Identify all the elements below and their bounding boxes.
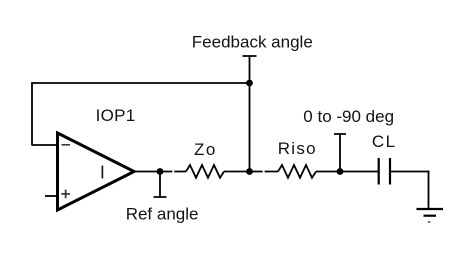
wire output to Zo — [160, 171, 186, 173]
op-amp minus pin label — [62, 144, 71, 146]
wire feedback top horizontal — [32, 82, 250, 84]
resistor Riso — [278, 165, 316, 178]
svg-text:I: I — [100, 162, 105, 182]
wire CL to corner — [390, 171, 429, 173]
svg-text:0 to -90 deg: 0 to -90 deg — [303, 107, 394, 126]
node output dot — [337, 168, 344, 175]
wire corner down — [428, 171, 430, 209]
wire non-inverting input stub — [45, 195, 58, 197]
wire Zo to node — [224, 171, 250, 173]
svg-text:Zo: Zo — [194, 140, 217, 159]
wire op-amp output — [134, 171, 161, 173]
svg-text:IOP1: IOP1 — [96, 106, 136, 125]
wire node to CL — [340, 171, 378, 173]
svg-text:CL: CL — [372, 132, 397, 151]
node feedback bottom dot — [246, 168, 253, 175]
wire Riso to node — [316, 171, 340, 173]
svg-text:Riso: Riso — [278, 139, 317, 158]
op-amp IOP1 — [58, 133, 135, 210]
capacitor CL — [379, 158, 390, 185]
terminal Feedback angle — [243, 56, 257, 83]
ground — [417, 209, 444, 222]
node feedback top dot — [246, 80, 253, 87]
wire feedback vertical — [249, 83, 251, 172]
svg-text:Ref angle: Ref angle — [126, 204, 199, 223]
wire inverting input — [32, 144, 58, 146]
node junction output dot — [157, 168, 164, 175]
wire node to Riso — [250, 171, 279, 173]
wire feedback left vertical — [31, 82, 33, 145]
wire gap artifacts — [172, 170, 174, 174]
terminal 0 to -90 deg — [334, 134, 346, 172]
svg-text:Feedback angle: Feedback angle — [192, 32, 313, 51]
op-amp plus pin label — [61, 190, 70, 199]
resistor Zo — [186, 165, 224, 178]
terminal Ref angle — [154, 172, 167, 198]
